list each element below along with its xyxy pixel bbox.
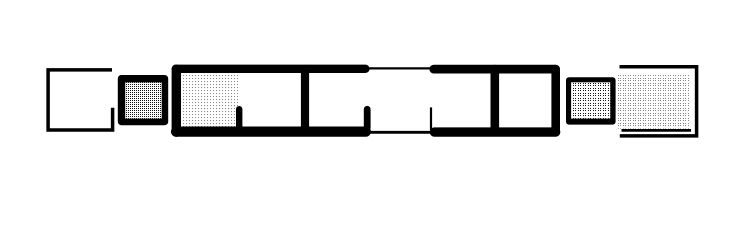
wire: underline below stipple — [622, 129, 692, 132]
wall: top wall thin middle segment — [369, 67, 430, 69]
wall: stub partition 2 (thick) — [364, 109, 371, 128]
block 2: small thick-border square, stippled fill — [118, 75, 168, 125]
wall: bottom wall left thick segment — [176, 127, 366, 137]
room 5: stippled square with offset open frame (far right) — [618, 67, 697, 136]
hall: stippled floor area of big structure — [181, 73, 241, 127]
wall: bottom wall thin middle segment — [370, 131, 431, 134]
wall: interior partition B — [490, 69, 499, 132]
wall: top wall right thick segment — [434, 65, 556, 74]
block 4: small thick-border square, stippled fill (right of big structure) — [566, 77, 616, 124]
wall: big structure right outer wall — [551, 69, 560, 132]
wall: top wall left thick segment — [176, 65, 366, 73]
wall: bottom wall right thick segment — [434, 127, 555, 136]
wire: open frame (top, right, bottom) — [620, 67, 697, 136]
wall: stub partition 1 (thick, in stippled hall) — [236, 109, 242, 127]
wall: interior partition A — [301, 69, 309, 132]
wall: big structure left outer wall — [172, 69, 181, 132]
wall: stub partition 3 (thin) — [430, 107, 432, 130]
room 1: open square outline (left) — [48, 70, 113, 130]
